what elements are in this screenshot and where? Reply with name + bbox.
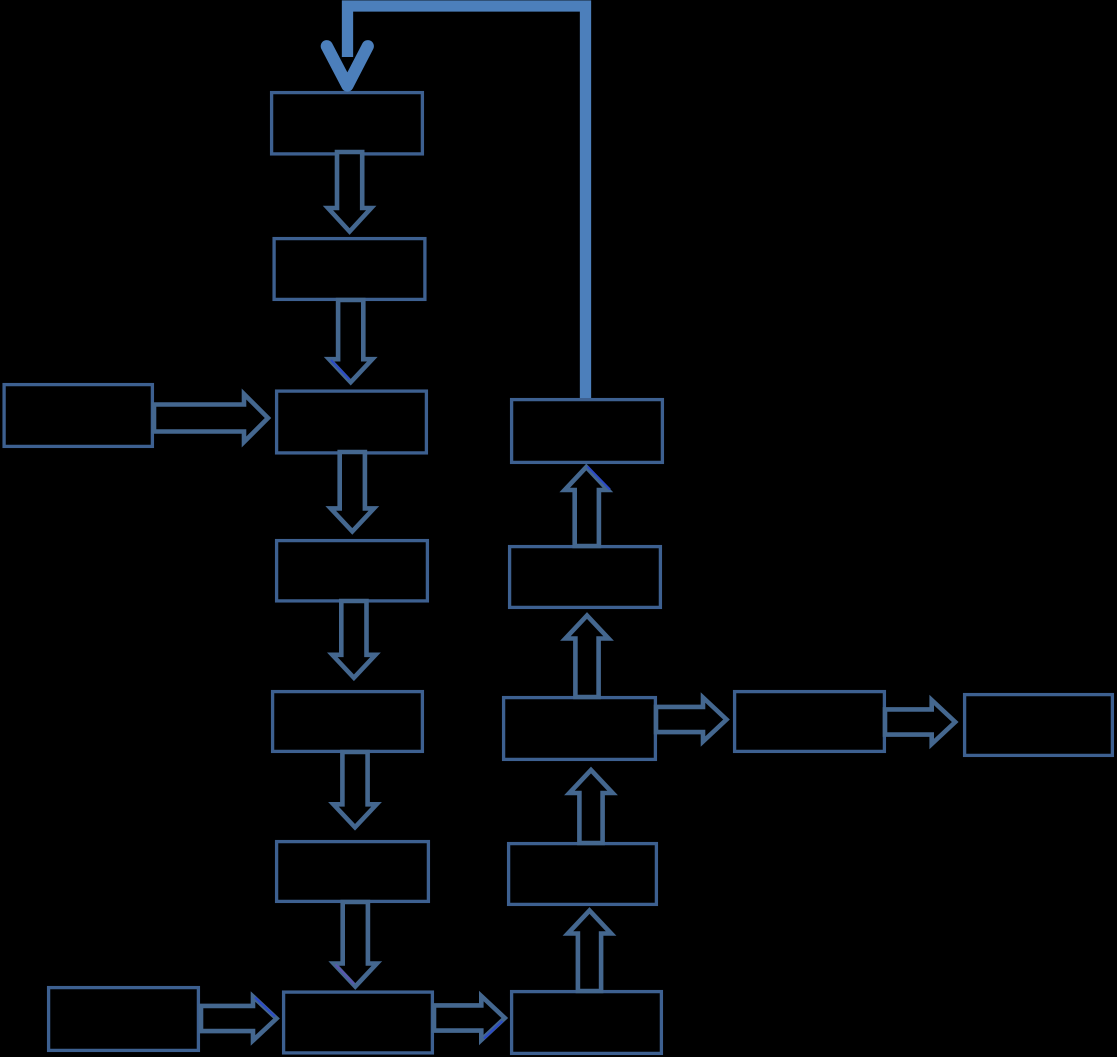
box Mc bbox=[504, 698, 656, 760]
box Ma bbox=[512, 400, 663, 463]
arrow L7 to Me right bbox=[434, 996, 505, 1040]
artifact line in arrow L6-L7 head bbox=[336, 965, 355, 985]
arrow far-left to L3 right bbox=[154, 394, 268, 442]
arrow L1-L2 down bbox=[328, 152, 371, 232]
box L7 bbox=[284, 992, 433, 1053]
arrow L4-L5 down bbox=[332, 601, 375, 678]
box R2 bbox=[965, 695, 1113, 756]
box Me bbox=[512, 992, 662, 1054]
artifact line in arrow Mb-Ma head bbox=[588, 467, 611, 490]
artifact line in arrow L7 to Me head bbox=[484, 1021, 503, 1039]
box L2 bbox=[274, 239, 425, 300]
arrow Mb-Ma up bbox=[565, 467, 608, 546]
arrow L6-L7 down bbox=[334, 902, 377, 987]
box R1 bbox=[735, 692, 885, 752]
connector loop arrowhead bbox=[327, 46, 368, 85]
arrow R1 to R2 right bbox=[885, 700, 955, 744]
artifact line in arrow L2-L3 head bbox=[331, 360, 350, 380]
box bottom-left bbox=[49, 988, 199, 1051]
connector loop elbow from Ma top to L1 top bbox=[348, 6, 586, 398]
box Mb bbox=[510, 547, 661, 608]
box L5 bbox=[273, 692, 423, 752]
arrow bottom-left to L7 right bbox=[201, 997, 277, 1041]
box L6 bbox=[277, 842, 429, 902]
arrow Md-Mc up bbox=[569, 770, 612, 843]
arrow L5-L6 down bbox=[333, 752, 376, 827]
box far-left bbox=[4, 385, 152, 447]
box Md bbox=[509, 844, 657, 905]
box L1 bbox=[272, 93, 423, 154]
box L4 bbox=[277, 541, 428, 601]
box L3 bbox=[277, 391, 427, 453]
artifact line in arrow bottom-left to L7 head bbox=[255, 998, 275, 1017]
arrow L2-L3 down bbox=[329, 300, 372, 382]
arrow Mc-Mb up bbox=[565, 616, 608, 698]
arrow Me-Md up bbox=[568, 911, 611, 992]
arrow L3-L4 down bbox=[331, 452, 374, 531]
arrow Mc to R1 right bbox=[656, 698, 727, 742]
